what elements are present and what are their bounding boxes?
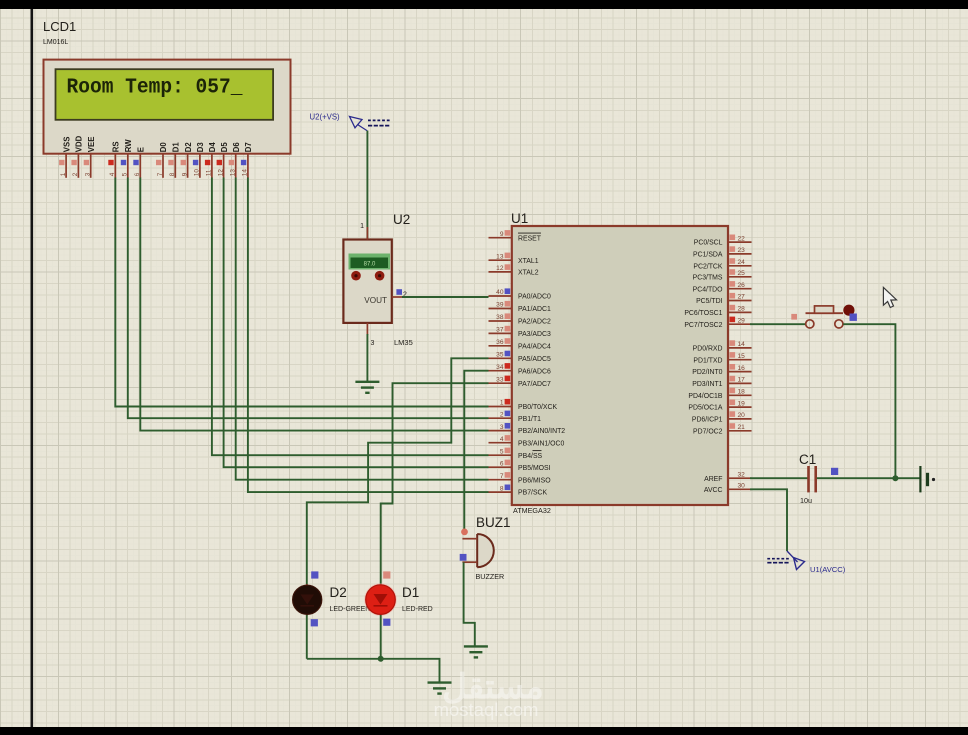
svg-text:33: 33 (496, 376, 504, 383)
svg-text:2: 2 (72, 172, 79, 176)
svg-text:XTAL2: XTAL2 (518, 270, 539, 277)
U1 pin 33 PA7/ADC7 (489, 376, 551, 388)
svg-text:AREF: AREF (704, 476, 722, 483)
button state square (850, 314, 857, 321)
U1 pin 18 PD4/OC1B (688, 388, 751, 400)
svg-text:D6: D6 (232, 142, 241, 153)
power terminal (cell) (920, 466, 935, 492)
svg-text:10u: 10u (800, 496, 812, 505)
LCD1 pin 7 D0 (156, 142, 168, 178)
svg-text:PD6/ICP1: PD6/ICP1 (692, 417, 723, 424)
U1 pin 36 PA4/ADC4 (489, 338, 551, 350)
svg-text:RS: RS (112, 141, 121, 152)
svg-text:LCD1: LCD1 (43, 19, 76, 34)
svg-text:PA3/ADC3: PA3/ADC3 (518, 331, 551, 338)
svg-text:D1: D1 (402, 585, 419, 600)
wire D6 to PB6 (236, 178, 489, 480)
svg-text:U1: U1 (511, 211, 528, 226)
svg-text:U2: U2 (393, 212, 410, 227)
svg-text:19: 19 (738, 400, 746, 407)
U2 pin 3 (367, 323, 374, 347)
svg-text:D0: D0 (159, 142, 168, 153)
U1 pin 15 PD1/TXD (693, 352, 751, 364)
wire U1 AREF to C1 (750, 477, 808, 479)
LCD1 pin 2 VDD (71, 135, 83, 177)
svg-text:10: 10 (194, 169, 201, 177)
U1 pin 19 PD5/OC1A (688, 400, 751, 412)
svg-text:3: 3 (500, 424, 504, 431)
svg-text:13: 13 (230, 169, 237, 177)
svg-text:PA7/ADC7: PA7/ADC7 (518, 381, 551, 388)
wire D7 to PB7 (248, 178, 489, 493)
svg-text:3: 3 (85, 172, 92, 176)
svg-text:1: 1 (360, 223, 364, 230)
junction node C1/button (892, 475, 898, 481)
svg-text:VDD: VDD (75, 135, 84, 152)
top letterbox bar (0, 0, 968, 9)
U1 pin 9 RESET (489, 230, 542, 242)
D2 selection squares (311, 571, 319, 626)
svg-text:PB1/T1: PB1/T1 (518, 416, 541, 423)
LCD1 pin 13 D6 (229, 142, 241, 178)
svg-text:7: 7 (500, 473, 504, 480)
wire D1 cathode to rail (380, 615, 382, 659)
svg-text:15: 15 (738, 353, 746, 360)
D1 labels (402, 585, 433, 613)
U2 value label LM35 (394, 338, 413, 347)
LCD1 pin 10 D3 (193, 142, 205, 178)
U1 pin 4 PB3/AIN1/OC0 (489, 435, 565, 447)
svg-text:E: E (137, 147, 146, 152)
LCD1 pin 8 D1 (168, 142, 180, 178)
svg-text:16: 16 (738, 365, 746, 372)
svg-text:PA2/ADC2: PA2/ADC2 (518, 319, 551, 326)
wire U2 pin3 to ground (366, 334, 368, 382)
svg-text:9: 9 (500, 231, 504, 238)
svg-text:26: 26 (738, 282, 746, 289)
U1 pin 40 PA0/ADC0 (489, 288, 551, 300)
wire U2 VOUT to U1 PA0 (402, 296, 489, 298)
LCD1 pin 12 D5 (217, 142, 229, 178)
U1 pin 16 PD2/INT0 (692, 364, 751, 376)
wire U2(+VS) to U2 pin1 (366, 131, 368, 239)
wire E to PB2 (140, 178, 488, 431)
U2 pin 2 VOUT (392, 289, 407, 298)
svg-text:D2: D2 (330, 585, 347, 600)
svg-text:27: 27 (738, 294, 746, 301)
U1 reference label (511, 211, 528, 226)
wire C1 to power terminal (817, 477, 920, 479)
svg-text:28: 28 (738, 306, 746, 313)
svg-text:14: 14 (738, 341, 746, 348)
svg-text:VOUT: VOUT (364, 296, 387, 305)
wire BUZ1 to ground (464, 562, 475, 646)
svg-text:PA5/ADC5: PA5/ADC5 (518, 356, 551, 363)
U1 pin 22 PC0/SCL (694, 235, 752, 247)
LCD1 pin 9 D2 (181, 142, 193, 178)
U1 pin 6 PB5/MOSI (489, 460, 551, 472)
U1 pin 12 XTAL2 (489, 264, 539, 276)
svg-text:VEE: VEE (87, 137, 96, 153)
svg-text:PA6/ADC6: PA6/ADC6 (518, 368, 551, 375)
svg-text:PB2/AIN0/INT2: PB2/AIN0/INT2 (518, 428, 565, 435)
wire D1 anode to U1 PA7 (381, 383, 489, 585)
svg-text:21: 21 (738, 424, 746, 431)
svg-text:PB6/MISO: PB6/MISO (518, 477, 551, 484)
LCD1 pin 5 RW (121, 139, 133, 178)
svg-text:25: 25 (738, 270, 746, 277)
U1 pin 30 AVCC (704, 483, 752, 494)
wire U1 pin29 to button (750, 323, 806, 325)
svg-text:PD1/TXD: PD1/TXD (693, 357, 722, 364)
svg-text:PC6/TOSC1: PC6/TOSC1 (684, 310, 722, 317)
svg-text:PC7/TOSC2: PC7/TOSC2 (684, 322, 722, 329)
svg-text:8: 8 (169, 172, 176, 176)
svg-text:36: 36 (496, 339, 504, 346)
svg-text:PD7/OC2: PD7/OC2 (693, 428, 723, 435)
svg-text:11: 11 (206, 169, 213, 176)
svg-text:ATMEGA32: ATMEGA32 (513, 506, 551, 515)
svg-text:24: 24 (738, 259, 746, 266)
wire RW to PB1 (128, 178, 489, 419)
LCD1 pin 6 E (133, 147, 145, 178)
LCD1 pin 3 VEE (84, 137, 96, 178)
svg-text:PC4/TDO: PC4/TDO (693, 286, 724, 293)
mcu U1 ATMEGA32 body (512, 226, 728, 505)
svg-text:2: 2 (500, 411, 504, 418)
svg-text:XTAL1: XTAL1 (518, 258, 539, 265)
LCD1 pin 11 D4 (205, 142, 217, 178)
svg-text:U2(+VS): U2(+VS) (310, 113, 341, 122)
BUZ1 reference label (476, 515, 511, 530)
svg-text:D5: D5 (220, 142, 229, 153)
buzzer BUZ1 body (462, 534, 493, 567)
U1 pin 20 PD6/ICP1 (692, 411, 752, 423)
svg-text:1: 1 (500, 400, 504, 407)
svg-text:12: 12 (217, 169, 224, 177)
U1 pin 5 PB4/SS (489, 448, 543, 460)
led D2 LED-GREEN (293, 584, 322, 616)
wire D4 to PB4 (212, 178, 489, 456)
svg-text:7: 7 (157, 172, 164, 176)
svg-text:PC2/TCK: PC2/TCK (693, 263, 723, 270)
svg-text:37: 37 (496, 327, 504, 334)
BUZ1 pin state dot (461, 529, 468, 536)
svg-text:32: 32 (738, 471, 746, 478)
svg-text:D4: D4 (208, 142, 217, 153)
svg-text:PC5/TDI: PC5/TDI (696, 298, 723, 305)
svg-text:Room Temp: 057_: Room Temp: 057_ (67, 76, 243, 100)
LCD1 pin 1 VSS (59, 137, 71, 178)
U1 pin 7 PB6/MISO (489, 472, 552, 484)
svg-text:PC1/SDA: PC1/SDA (693, 252, 723, 259)
svg-text:40: 40 (496, 289, 504, 296)
svg-text:4: 4 (500, 436, 504, 443)
U1 pin 37 PA3/ADC3 (489, 326, 551, 338)
svg-text:3: 3 (371, 340, 375, 347)
svg-text:LED-RED: LED-RED (402, 606, 433, 613)
U1 pin 17 PD3/INT1 (692, 376, 751, 388)
U1 pin 8 PB7/SCK (489, 485, 548, 497)
U1 pin 35 PA5/ADC5 (489, 351, 551, 363)
svg-text:5: 5 (500, 448, 504, 455)
svg-text:35: 35 (496, 352, 504, 359)
U1 pin 2 PB1/T1 (489, 411, 542, 423)
U2 pin 1 (360, 223, 367, 240)
svg-text:U1(AVCC): U1(AVCC) (810, 565, 846, 574)
svg-text:PD4/OC1B: PD4/OC1B (688, 393, 722, 400)
U1 value label ATMEGA32 (513, 506, 551, 515)
U1 pin 28 PC6/TOSC1 (684, 305, 751, 317)
net state square pin29 wire (791, 314, 797, 320)
ground BUZ1 (464, 646, 488, 657)
svg-text:PD3/INT1: PD3/INT1 (692, 381, 722, 388)
svg-text:13: 13 (496, 253, 504, 260)
svg-text:RW: RW (124, 139, 133, 152)
U2 display 87.0 (349, 254, 391, 270)
svg-text:PA4/ADC4: PA4/ADC4 (518, 343, 551, 350)
svg-text:RESET: RESET (518, 235, 542, 242)
sensor U2 LM35 body (343, 240, 391, 323)
svg-text:14: 14 (242, 169, 249, 177)
svg-text:D2: D2 (184, 142, 193, 153)
led D1 LED-RED (364, 583, 396, 616)
svg-text:PA0/ADC0: PA0/ADC0 (518, 294, 551, 301)
svg-text:1: 1 (60, 172, 67, 176)
U1 pin 34 PA6/ADC6 (489, 363, 551, 375)
svg-text:17: 17 (738, 377, 746, 384)
svg-text:BUZZER: BUZZER (476, 572, 505, 581)
wire D2 cathode to rail (306, 615, 308, 659)
BUZ1 value label (476, 572, 505, 581)
power flag U1(AVCC) (767, 551, 845, 574)
U1 pin 14 PD0/RXD (693, 340, 752, 352)
svg-text:mostaql.com: mostaql.com (434, 699, 539, 720)
svg-text:PD0/RXD: PD0/RXD (693, 346, 723, 353)
lcd LCD1 body (44, 60, 291, 154)
lcd LCD1 screen (56, 69, 274, 120)
svg-text:8: 8 (500, 485, 504, 492)
button state dot (843, 305, 854, 316)
svg-text:6: 6 (500, 460, 504, 467)
svg-text:C1: C1 (799, 452, 816, 467)
mouse cursor (883, 287, 896, 307)
bottom letterbox bar (0, 727, 968, 735)
svg-text:LED-GREEN: LED-GREEN (330, 606, 371, 613)
U1 pin 23 PC1/SDA (693, 246, 752, 258)
D2 labels (330, 585, 371, 613)
ground LED rail (428, 683, 452, 694)
push button SW1 (806, 306, 844, 328)
svg-text:PC3/TMS: PC3/TMS (693, 274, 723, 281)
svg-text:12: 12 (496, 265, 504, 272)
U1 pin 25 PC3/TMS (693, 269, 752, 281)
svg-text:VSS: VSS (62, 137, 71, 153)
svg-text:D1: D1 (172, 142, 181, 153)
U1 pin 29 PC7/TOSC2 (684, 317, 751, 329)
svg-text:23: 23 (738, 247, 746, 254)
wire button to C1 node (843, 324, 895, 478)
LCD1 pin 14 D7 (241, 142, 253, 178)
net state square C1 (831, 468, 838, 475)
watermark mostaql.com (434, 668, 544, 720)
BUZ1 pin state square (460, 554, 467, 561)
svg-text:AVCC: AVCC (704, 487, 723, 494)
svg-text:39: 39 (496, 302, 504, 309)
svg-text:PD2/INT0: PD2/INT0 (692, 369, 722, 376)
capacitor C1 (799, 452, 816, 505)
svg-text:PB0/T0/XCK: PB0/T0/XCK (518, 404, 557, 411)
svg-text:22: 22 (738, 235, 746, 242)
svg-text:87.0: 87.0 (364, 262, 376, 268)
U2 VOUT label (364, 296, 387, 305)
svg-text:29: 29 (738, 317, 746, 324)
svg-text:PB4/SS: PB4/SS (518, 453, 543, 460)
sheet left border (30, 9, 33, 727)
D1 selection squares (383, 571, 390, 625)
svg-text:D3: D3 (196, 142, 205, 153)
svg-text:6: 6 (134, 172, 141, 176)
LCD1 reference label (43, 19, 76, 46)
svg-text:LM016L: LM016L (43, 39, 68, 46)
svg-text:5: 5 (122, 172, 129, 176)
U1 pin 1 PB0/T0/XCK (489, 399, 558, 411)
wire D5 to PB5 (224, 178, 489, 468)
svg-text:PB3/AIN1/OC0: PB3/AIN1/OC0 (518, 440, 565, 447)
U1 pin 24 PC2/TCK (693, 258, 751, 270)
wire U1 AVCC to power flag (750, 489, 787, 551)
svg-text:18: 18 (738, 389, 746, 396)
svg-text:LM35: LM35 (394, 338, 413, 347)
svg-text:PD5/OC1A: PD5/OC1A (688, 405, 722, 412)
junction node LED rail (378, 656, 384, 662)
LCD1 pin 4 RS (108, 141, 120, 177)
svg-text:38: 38 (496, 314, 504, 321)
svg-text:BUZ1: BUZ1 (476, 515, 511, 530)
U2 reference label (393, 212, 410, 227)
wire D2 anode to U1 PA5 (307, 358, 489, 585)
svg-text:PC0/SCL: PC0/SCL (694, 240, 723, 247)
U1 pin 3 PB2/AIN0/INT2 (489, 423, 566, 435)
U1 pin 32 AREF (704, 471, 751, 482)
svg-text:20: 20 (738, 412, 746, 419)
svg-text:D7: D7 (244, 142, 253, 152)
svg-text:4: 4 (109, 172, 116, 176)
svg-text:30: 30 (738, 483, 746, 490)
U2 adjust knobs (351, 271, 384, 281)
ground U2 (355, 382, 379, 393)
svg-text:PA1/ADC1: PA1/ADC1 (518, 306, 551, 313)
wire BUZ1 to U1 PA6 (464, 371, 488, 535)
svg-text:9: 9 (181, 172, 188, 176)
U1 pin 39 PA1/ADC1 (489, 301, 551, 313)
U1 pin 21 PD7/OC2 (693, 423, 752, 435)
U1 pin 38 PA2/ADC2 (489, 313, 551, 325)
power flag U2(+VS) (310, 113, 391, 131)
U1 pin 26 PC4/TDO (693, 281, 752, 293)
svg-text:PB7/SCK: PB7/SCK (518, 490, 548, 497)
U1 pin 27 PC5/TDI (696, 293, 751, 305)
U1 pin 13 XTAL1 (489, 253, 539, 265)
svg-text:PB5/MOSI: PB5/MOSI (518, 465, 551, 472)
wire LED ground rail (307, 659, 440, 683)
svg-text:34: 34 (496, 364, 504, 371)
wire RS to PB0 (115, 178, 488, 407)
